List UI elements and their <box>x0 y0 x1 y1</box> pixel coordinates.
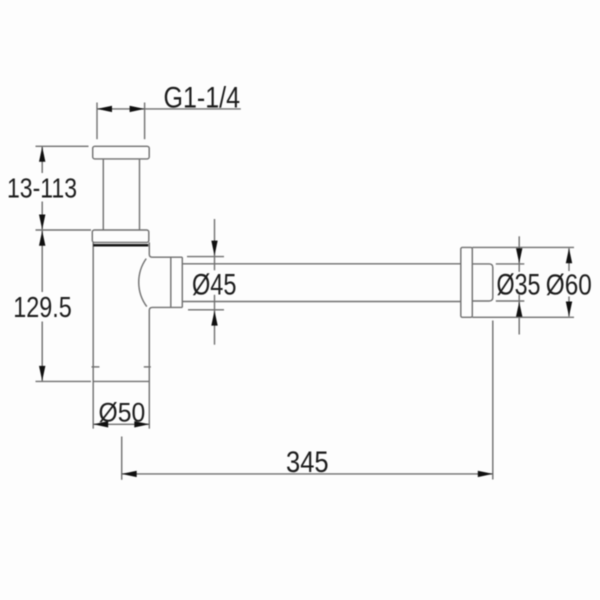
inlet pipe left wire <box>102 159 104 230</box>
horizontal pipe bottom wire <box>182 301 461 303</box>
arrow G1-1/4 right <box>130 106 145 112</box>
dim d60 line lower <box>568 297 570 317</box>
svg-text:13-113: 13-113 <box>7 172 77 203</box>
dim d50 extension left is bottle side, dim line <box>93 423 149 425</box>
bottle body right wire lower <box>149 307 182 428</box>
dim 129.5 line upper <box>41 230 43 292</box>
dim d45 line inner upper <box>214 257 216 271</box>
dim d35 line inner lower <box>518 295 520 301</box>
dim d45 line lower <box>214 310 216 345</box>
dim d35 tick top <box>496 263 525 265</box>
union nut right wire <box>181 257 183 307</box>
svg-text:Ø50: Ø50 <box>99 397 146 427</box>
arrow 345 right <box>478 471 493 477</box>
dim d35 line lower <box>518 301 520 335</box>
dim d45 tick bottom <box>188 309 224 311</box>
arrow d60 up <box>566 248 572 263</box>
wall stub outlet <box>472 264 493 301</box>
trap flange thick seam <box>93 244 148 247</box>
arrow 129.5 up <box>39 231 45 246</box>
dim 13-113 line upper <box>41 146 43 173</box>
bottle body right wire upper <box>149 242 182 257</box>
dim 13-113 extension top <box>36 145 89 147</box>
dim d45 tick top <box>187 256 224 258</box>
dim 13-113 line lower <box>41 202 43 231</box>
inlet pipe right wire <box>139 159 141 230</box>
arrow 13-113 up <box>39 147 45 162</box>
svg-text:Ø35: Ø35 <box>497 269 541 302</box>
bottle body left wire <box>92 242 94 428</box>
arrow d45 up <box>211 311 217 326</box>
arrow d35 down <box>516 248 522 263</box>
dim 345 extension right <box>492 321 494 480</box>
dim d45 line upper <box>214 219 216 256</box>
dim G1-1/4 line <box>97 108 241 110</box>
bottle bottom wire <box>93 380 149 382</box>
dim 345 extension left <box>121 437 123 480</box>
arrow 345 left <box>122 471 137 477</box>
svg-text:345: 345 <box>286 446 329 479</box>
dim G1-1/4 extension left <box>96 103 98 140</box>
top cap flange <box>93 146 150 159</box>
dim 129.5 line lower <box>41 322 43 382</box>
bottle cup seam tick left <box>92 366 100 368</box>
dim d35 line upper <box>518 236 520 264</box>
arrow 129.5 down <box>39 366 45 381</box>
dim 13-113 extension bottom <box>36 229 92 231</box>
dim 345 line <box>122 473 493 475</box>
arrow 13-113 down <box>39 215 45 230</box>
dim d60 extension top <box>472 246 574 248</box>
union nut left wire <box>170 257 172 307</box>
dim d60 extension bottom <box>472 316 574 318</box>
svg-text:G1-1/4: G1-1/4 <box>164 81 241 114</box>
arrow d50 right <box>134 421 149 427</box>
dim d35 line inner upper <box>518 264 520 272</box>
svg-text:Ø60: Ø60 <box>546 270 592 302</box>
trap top flange <box>92 230 149 242</box>
dim G1-1/4 extension right <box>144 103 146 140</box>
bottle cup seam tick right <box>144 366 151 368</box>
arrow d60 down <box>566 302 572 317</box>
arrow d45 down <box>211 241 217 256</box>
dim d60 line upper <box>568 248 570 271</box>
svg-text:Ø45: Ø45 <box>192 269 237 302</box>
svg-text:129.5: 129.5 <box>13 292 72 324</box>
dim d45 line inner lower <box>214 295 216 310</box>
dim 129.5 extension bottom <box>36 380 92 382</box>
arrow d35 up <box>516 302 522 317</box>
wall flange <box>461 247 473 317</box>
ball joint arc <box>139 259 147 307</box>
dim d35 tick bottom <box>496 300 525 302</box>
horizontal pipe top wire <box>182 263 461 265</box>
arrow d50 left <box>93 421 108 427</box>
arrow G1-1/4 left <box>97 106 112 112</box>
